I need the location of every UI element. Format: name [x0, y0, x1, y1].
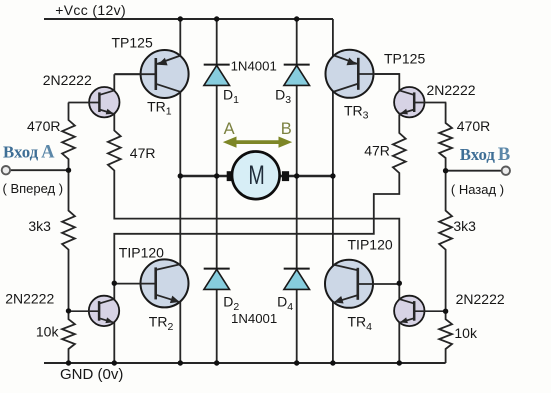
svg-text:470R: 470R — [457, 118, 490, 134]
svg-text:1N4001: 1N4001 — [231, 311, 277, 326]
svg-text:10k: 10k — [454, 325, 478, 341]
svg-text:+Vcc (12v): +Vcc (12v) — [55, 2, 126, 18]
svg-text:47R: 47R — [364, 143, 390, 159]
svg-text:2N2222: 2N2222 — [43, 72, 92, 88]
svg-text:TIP120: TIP120 — [348, 237, 393, 253]
svg-text:1N4001: 1N4001 — [231, 59, 277, 74]
svg-text:3k3: 3k3 — [28, 218, 51, 234]
svg-text:( Назад ): ( Назад ) — [451, 182, 504, 197]
svg-text:3k3: 3k3 — [453, 218, 476, 234]
svg-text:TIP120: TIP120 — [119, 245, 164, 261]
svg-text:TP125: TP125 — [384, 50, 425, 66]
svg-text:ВходB: ВходB — [460, 145, 510, 165]
svg-text:M: M — [248, 160, 264, 190]
svg-text:TP125: TP125 — [112, 34, 153, 50]
svg-text:( Вперед ): ( Вперед ) — [3, 181, 64, 196]
svg-text:10k: 10k — [36, 324, 60, 340]
svg-text:2N2222: 2N2222 — [427, 82, 476, 98]
svg-text:GND (0v): GND (0v) — [60, 366, 123, 383]
svg-text:2N2222: 2N2222 — [5, 290, 54, 306]
svg-text:A: A — [224, 120, 235, 138]
svg-text:47R: 47R — [130, 145, 156, 161]
svg-text:ВходA: ВходA — [3, 142, 55, 162]
svg-text:B: B — [281, 120, 292, 138]
svg-text:470R: 470R — [27, 118, 60, 134]
svg-text:2N2222: 2N2222 — [456, 291, 505, 307]
